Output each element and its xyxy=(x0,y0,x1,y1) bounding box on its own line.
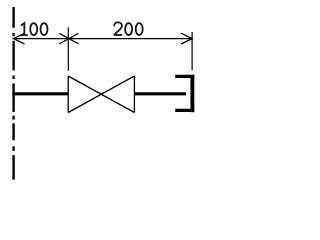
arrowhead left (at centerline, pointing left) xyxy=(13,33,24,44)
centerline (dash-dot vertical) xyxy=(12,7,14,180)
arrowhead right (pointing right) xyxy=(181,33,192,44)
dimension text 200 xyxy=(114,22,143,35)
arrowheads at junction (double, back to back) xyxy=(59,33,78,43)
extension line (right end) xyxy=(191,32,193,70)
pipe end bracket (right) xyxy=(175,75,194,112)
dimension text 100 xyxy=(21,23,48,35)
extension line (valve left edge, above) xyxy=(67,27,69,70)
valve V1 (bowtie) xyxy=(68,76,134,113)
dimension line xyxy=(13,38,192,40)
pipe right segment (thick) xyxy=(134,92,186,95)
pipe left segment (thick) xyxy=(12,92,68,95)
